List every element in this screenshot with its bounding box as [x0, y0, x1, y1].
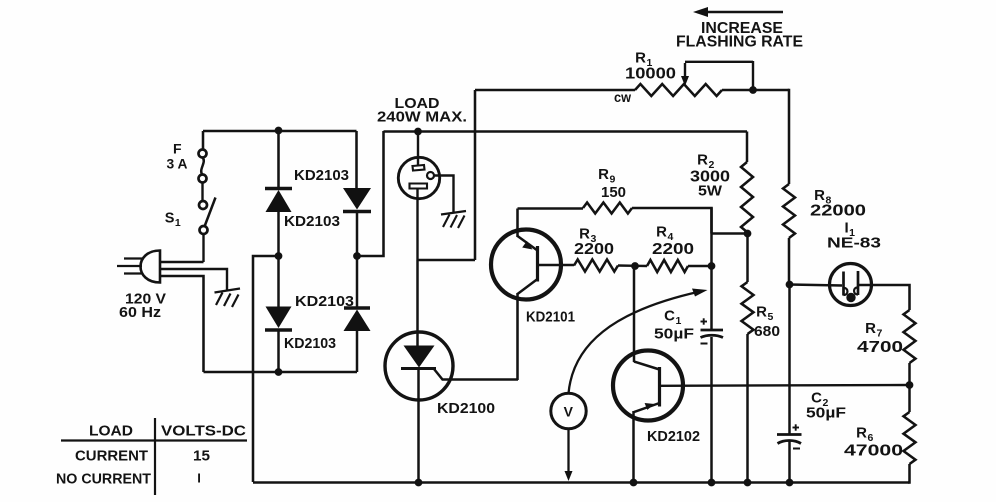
wire DC plus rail — [384, 130, 748, 133]
wire SCR anode lead — [416, 260, 419, 346]
svg-text:KD2100: KD2100 — [437, 400, 495, 417]
SCR KD2100 — [385, 332, 518, 400]
wire fuse to switch — [201, 182, 203, 201]
svg-text:I: I — [197, 471, 201, 486]
label 50uF (C2) — [806, 405, 846, 422]
label 2200 (R3) — [574, 241, 614, 258]
svg-text:V: V — [564, 404, 574, 420]
svg-text:KD2103: KD2103 — [284, 335, 336, 352]
svg-text:2200: 2200 — [652, 241, 694, 258]
svg-text:5W: 5W — [698, 183, 723, 200]
wire R1 left lead — [475, 89, 635, 92]
label KD2103 (bottom-mid) — [295, 293, 354, 310]
svg-text:F: F — [173, 141, 182, 157]
increase-flashing-rate arrow — [693, 7, 783, 17]
resistor R9 zigzag — [583, 203, 632, 214]
node lamp-C2 junction — [786, 281, 793, 288]
switch S1 — [199, 198, 216, 235]
svg-text:KD2103: KD2103 — [284, 213, 340, 230]
svg-text:LOAD: LOAD — [89, 424, 133, 440]
wire C2 bottom lead — [788, 442, 791, 483]
wire R2 top lead — [746, 132, 749, 163]
V meter ground arrow — [565, 429, 573, 481]
label VOLTS-DC — [161, 424, 247, 440]
wire C2 top lead — [788, 285, 791, 434]
svg-text:2200: 2200 — [574, 241, 614, 258]
label NO CURRENT — [56, 472, 151, 488]
label 4700 — [857, 339, 903, 356]
wire AC neutral to bridge — [204, 371, 358, 374]
label 50uF (C1) — [654, 326, 694, 343]
label R5 — [756, 304, 774, 324]
wire socket ground lead — [434, 176, 454, 213]
wire fuse top lead — [202, 131, 205, 150]
wire KD2101 base lead — [538, 264, 575, 266]
wire bridge right column top — [355, 131, 358, 188]
wire KD2101 collector to SCR gate — [516, 293, 519, 380]
wire socket bottom lead — [416, 189, 418, 260]
svg-text:VOLTS-DC: VOLTS-DC — [161, 424, 247, 440]
label 2200 (R4) — [652, 241, 694, 258]
label R9 — [598, 166, 616, 186]
resistor R1 zigzag — [635, 84, 722, 96]
wire R3-R4 link — [618, 264, 647, 267]
label cw — [614, 90, 631, 105]
plug 120V body — [117, 251, 160, 283]
diode KD2103 bottom-left — [265, 256, 292, 372]
wire plug ground lead — [160, 269, 227, 290]
svg-text:22000: 22000 — [810, 203, 866, 220]
meter V — [551, 393, 586, 428]
node KD2102 emitter rail junction — [630, 479, 637, 486]
table divider vertical — [154, 418, 156, 495]
wire R6 top lead — [908, 385, 911, 412]
node socket top junction — [415, 128, 422, 135]
wire R2 bottom lead — [746, 232, 749, 282]
svg-text:60 Hz: 60 Hz — [119, 304, 161, 321]
label CURRENT — [75, 449, 148, 465]
wire switch to plug — [160, 234, 204, 262]
label R6 — [856, 425, 874, 445]
wire bridge left column top — [277, 130, 280, 188]
ground chassis (plug) — [215, 289, 241, 308]
capacitor C1 — [701, 318, 724, 343]
wire AC top rail — [203, 130, 357, 133]
label R4 — [656, 224, 674, 244]
svg-text:KD2103: KD2103 — [294, 167, 349, 184]
wire KD2102 emitter lead — [632, 411, 635, 483]
label LOAD (table) — [89, 424, 133, 440]
label LOAD 240W MAX. — [377, 95, 467, 126]
label R8 — [814, 187, 832, 207]
node bridge left top junction — [275, 127, 282, 134]
svg-text:KD2101: KD2101 — [526, 309, 575, 326]
node C2 rail junction — [786, 479, 793, 486]
label R2 — [697, 152, 715, 172]
label KD2102 — [647, 428, 700, 445]
label R1 — [635, 50, 653, 70]
wire DC minus bottom rail — [253, 481, 910, 484]
node R2 bottom junction — [744, 230, 751, 237]
node R5 rail junction — [744, 479, 751, 486]
label 150 — [601, 184, 626, 201]
label F 3A — [167, 141, 188, 172]
potentiometer R1 wiper — [681, 61, 753, 90]
wire R1 to R8 — [788, 89, 791, 184]
label 680 — [754, 323, 780, 340]
wire lamp right lead — [859, 285, 910, 310]
load socket — [398, 157, 439, 198]
transistor KD2101 — [491, 230, 561, 300]
wire lamp left lead — [790, 285, 843, 286]
wire C1 bottom lead — [710, 337, 713, 483]
label R7 — [865, 320, 883, 340]
svg-text:240W MAX.: 240W MAX. — [377, 109, 467, 126]
label 1 — [197, 471, 201, 486]
svg-text:50µF: 50µF — [654, 326, 694, 343]
node bridge left bottom junction — [275, 369, 282, 376]
wire R5 bottom lead — [746, 334, 749, 483]
diode KD2103 top-left — [265, 189, 292, 257]
node bridge right mid junction — [354, 253, 361, 260]
node C1 rail junction — [708, 479, 715, 486]
label KD2101 — [526, 309, 575, 326]
svg-text:NO CURRENT: NO CURRENT — [56, 472, 151, 488]
node bridge left mid junction — [275, 253, 282, 260]
wire R9 right lead — [632, 208, 712, 234]
resistor R4 zigzag — [647, 260, 688, 272]
wire R2-R4 link — [712, 232, 748, 234]
label C1 — [664, 308, 682, 328]
wire R4 right lead — [688, 265, 712, 267]
wire KD2102 collector lead — [633, 266, 636, 362]
resistor R6 zigzag — [904, 412, 916, 464]
capacitor C2 — [777, 424, 802, 448]
label KD2100 — [437, 400, 495, 417]
wire R7 bottom lead — [908, 363, 911, 385]
label 22000 — [810, 203, 866, 220]
label 5W — [698, 183, 723, 200]
svg-text:3 A: 3 A — [167, 156, 188, 172]
label INCREASE FLASHING RATE — [676, 20, 803, 51]
wire R9 left lead — [518, 207, 584, 209]
wire SCR cathode lead — [417, 369, 420, 482]
wire R9 left riser — [516, 209, 519, 238]
svg-text:680: 680 — [754, 323, 780, 340]
node SCR cathode rail junction — [415, 479, 422, 486]
resistor R8 zigzag — [783, 184, 795, 238]
wire R8 to lamp node — [788, 238, 791, 285]
wire DC-plus riser — [357, 131, 384, 256]
svg-text:FLASHING RATE: FLASHING RATE — [676, 34, 803, 51]
svg-text:15: 15 — [193, 449, 210, 465]
transistor KD2102 — [613, 351, 683, 421]
label KD2103 (bottom) — [284, 335, 336, 352]
label S1 — [165, 211, 182, 230]
resistor R7 zigzag — [904, 310, 916, 363]
svg-text:47000: 47000 — [844, 443, 903, 460]
label 10000 — [625, 66, 676, 83]
diode KD2103 bottom-right — [344, 256, 371, 372]
svg-text:4700: 4700 — [857, 339, 903, 356]
diode KD2103 top-right — [343, 188, 371, 256]
node R1 right junction — [750, 87, 757, 94]
label I1 — [844, 220, 855, 240]
wire plug neutral lead — [160, 276, 204, 372]
svg-text:10000: 10000 — [625, 66, 676, 83]
resistor R5 zigzag — [742, 282, 754, 334]
label 120 V 60 Hz — [119, 291, 166, 322]
wire DC-minus stub — [253, 256, 279, 482]
svg-text:50µF: 50µF — [806, 405, 846, 422]
neon lamp I1 NE-83 — [830, 264, 872, 306]
wire R1-left riser — [418, 90, 476, 260]
wire socket top lead — [417, 132, 419, 166]
resistor R3 zigzag — [574, 260, 618, 272]
label C2 — [811, 390, 829, 410]
label 15 — [193, 449, 210, 465]
label KD2103 (top-left) — [294, 167, 349, 184]
label NE-83 — [827, 235, 881, 252]
wire KD2102 base row — [660, 384, 910, 387]
svg-text:cw: cw — [614, 90, 631, 105]
svg-text:KD2102: KD2102 — [647, 428, 700, 445]
svg-text:CURRENT: CURRENT — [75, 449, 148, 465]
label 3000 — [690, 169, 730, 186]
wire R1 right lead — [722, 89, 789, 92]
wire R6 bottom lead — [908, 464, 910, 483]
table rule horizontal — [61, 439, 247, 441]
svg-text:150: 150 — [601, 184, 626, 201]
label 47000 — [844, 443, 903, 460]
svg-text:NE-83: NE-83 — [827, 235, 881, 252]
node R3-R4 junction — [632, 263, 639, 270]
resistor R2 zigzag — [741, 162, 753, 232]
label R3 — [579, 226, 597, 246]
node R4 right junction — [708, 263, 715, 270]
fuse F — [199, 150, 207, 183]
ground chassis (socket) — [441, 211, 466, 228]
V meter probe arrow (curved) — [569, 289, 708, 394]
node R7-R6 junction — [906, 382, 913, 389]
label KD2103 (mid-left) — [284, 213, 340, 230]
svg-text:KD2103: KD2103 — [295, 293, 354, 310]
wire C1 top lead — [710, 208, 713, 330]
